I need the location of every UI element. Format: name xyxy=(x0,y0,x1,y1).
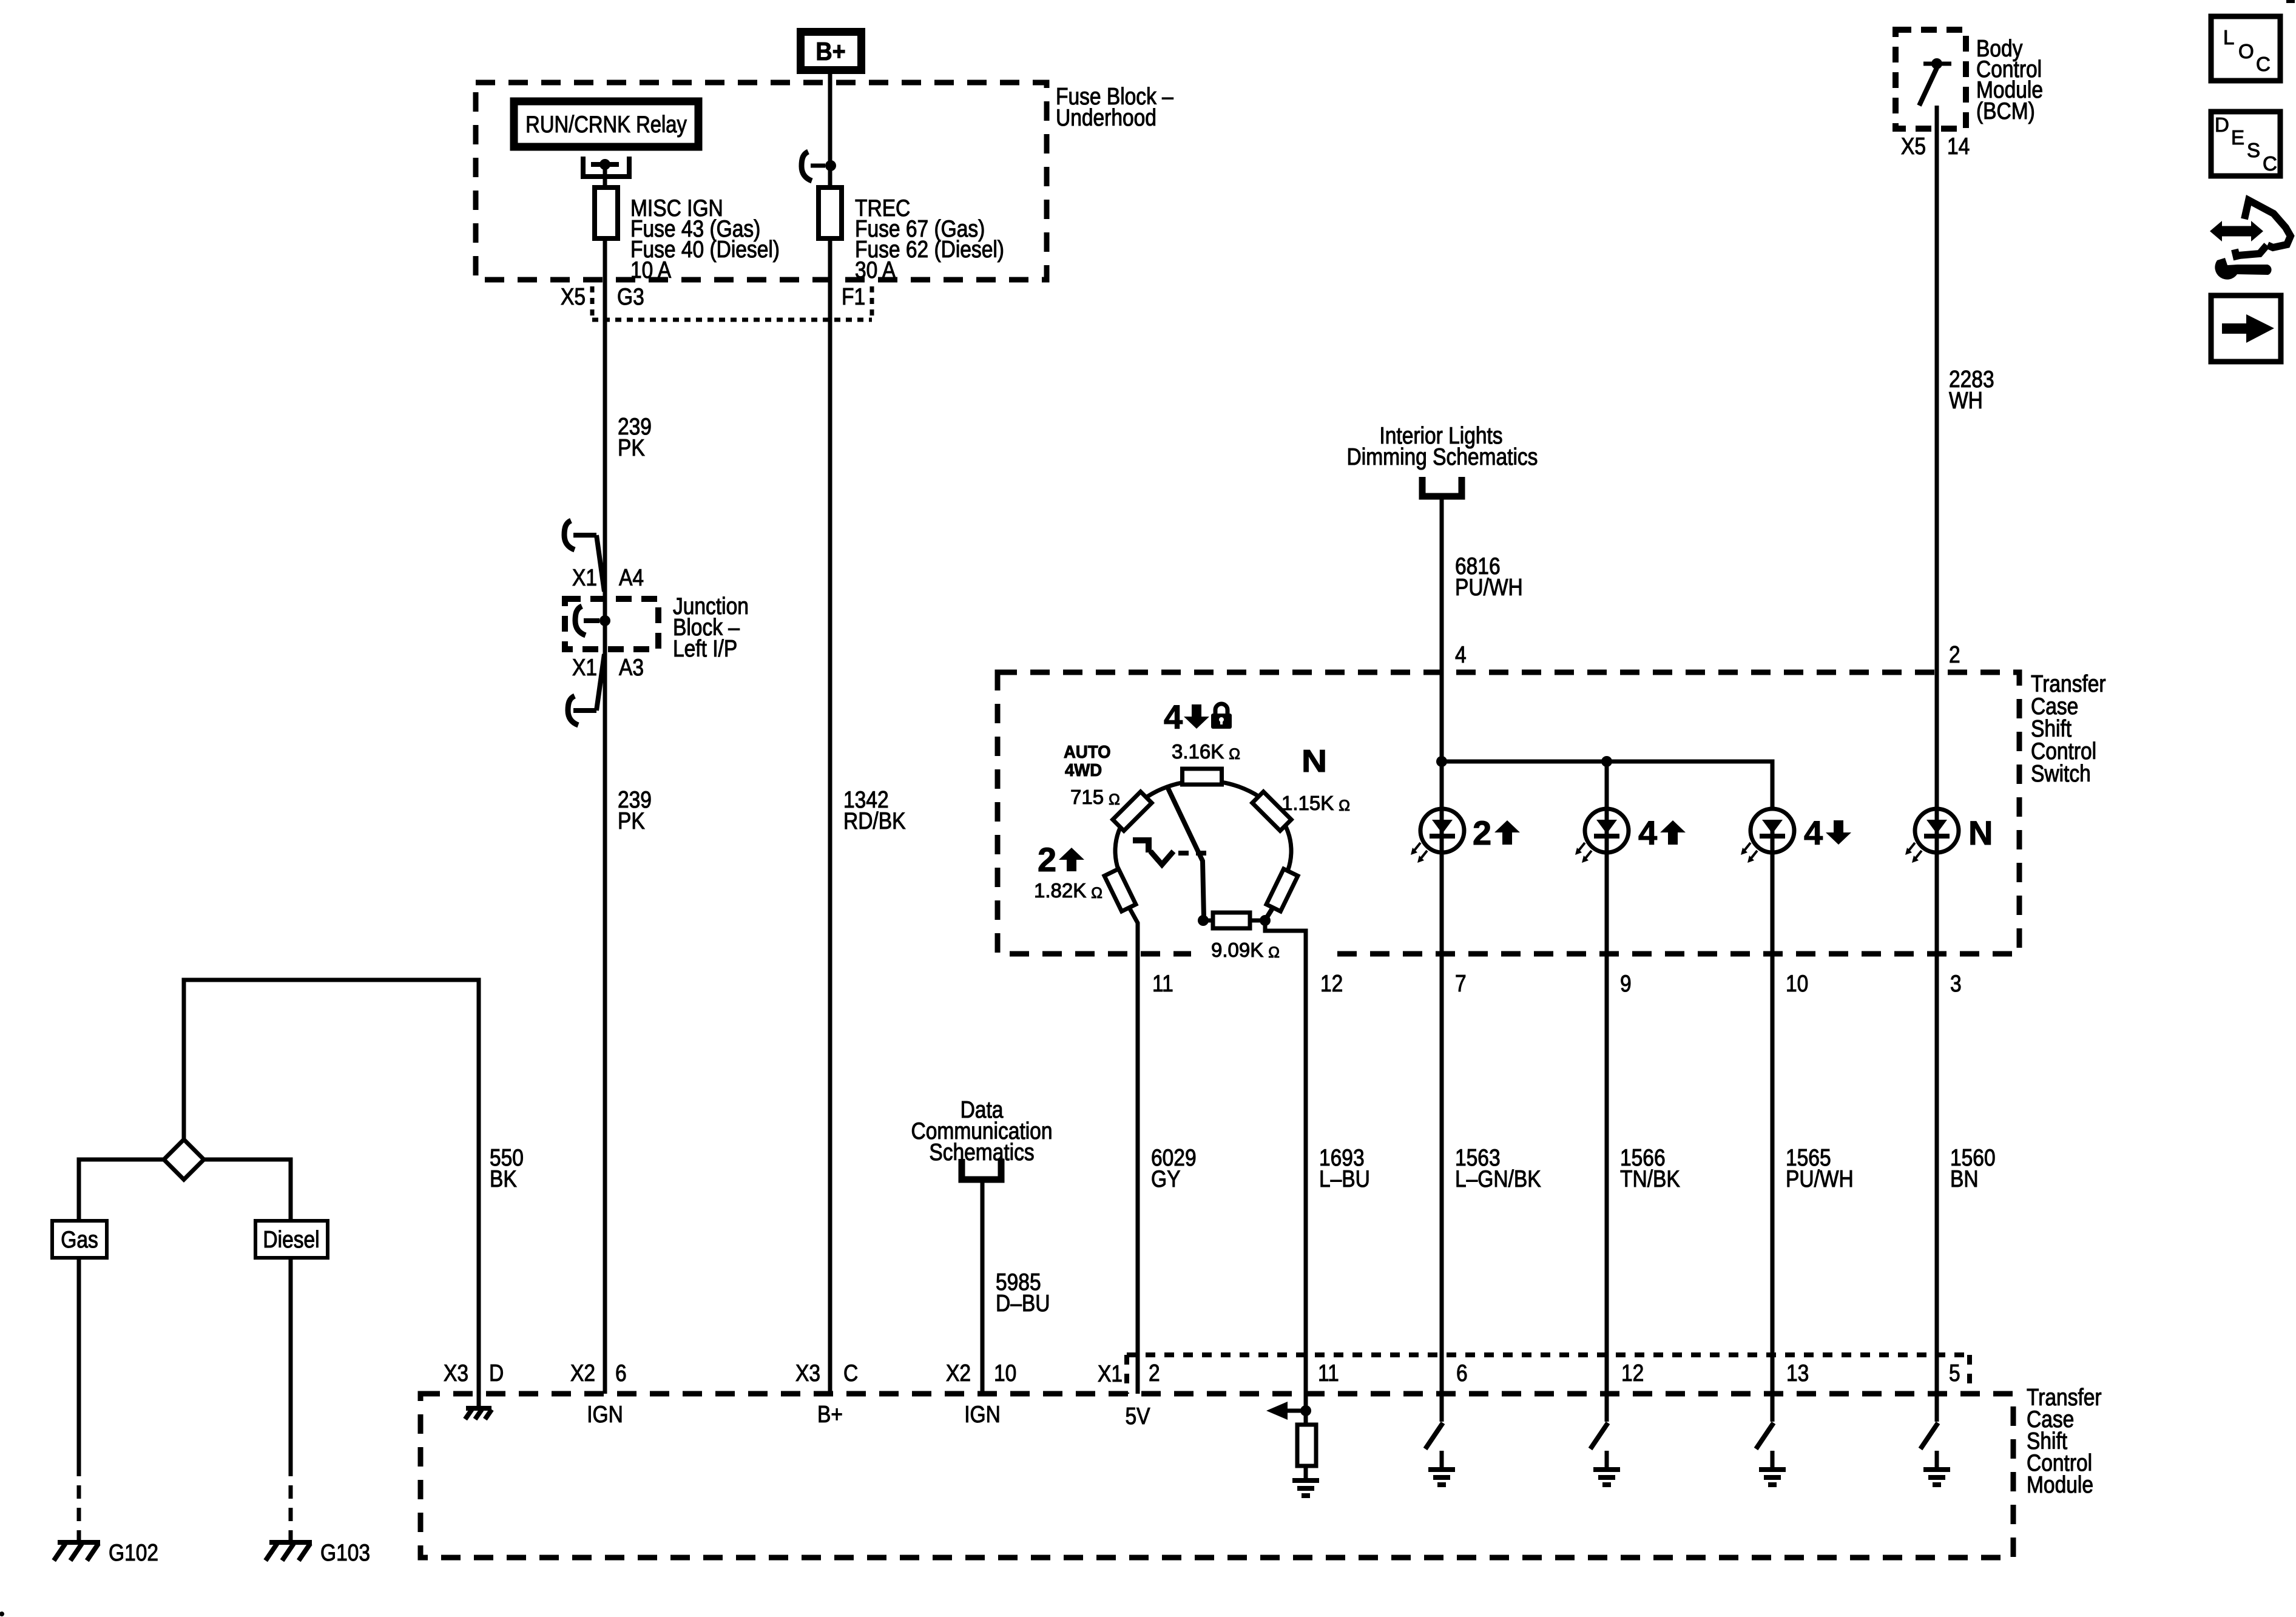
svg-text:4: 4 xyxy=(1638,814,1657,852)
svg-text:X5: X5 xyxy=(561,283,586,310)
icon LOC xyxy=(2211,16,2280,81)
svg-text:12: 12 xyxy=(1320,970,1343,997)
svg-text:4WD: 4WD xyxy=(1065,760,1102,780)
resistor 1.15K ohm (N position) xyxy=(1252,792,1291,831)
page period mark xyxy=(0,1612,4,1616)
branch box Gas xyxy=(52,1221,107,1258)
label 9.09K ohm xyxy=(1191,937,1329,962)
svg-text:Gas: Gas xyxy=(61,1226,98,1253)
svg-text:Underhood: Underhood xyxy=(1056,104,1156,131)
svg-text:TN/BK: TN/BK xyxy=(1620,1166,1680,1192)
resistor 9.09K ohm xyxy=(1203,919,1213,923)
svg-text:10: 10 xyxy=(994,1360,1016,1386)
wire module pin at x=2921 xyxy=(1771,1394,1775,1422)
svg-text:BN: BN xyxy=(1950,1166,1979,1192)
module BCM dashed box xyxy=(1896,30,1966,129)
resistor 3.16K ohm (4 DOWN LOCK position) xyxy=(1183,769,1222,785)
svg-text:X1: X1 xyxy=(572,564,597,591)
junction dot TREC feed xyxy=(825,160,836,171)
junction block - left I/P dashed box xyxy=(565,599,658,649)
junction dot 9.09K right xyxy=(1260,915,1271,926)
arrow to other circuit (module pin 11) xyxy=(1286,1409,1306,1413)
switch inside BCM xyxy=(1923,62,1951,66)
connector X1 A3 hook xyxy=(596,654,604,711)
svg-text:C: C xyxy=(843,1360,858,1386)
svg-text:N: N xyxy=(1968,814,1993,852)
svg-text:X2: X2 xyxy=(946,1360,971,1386)
connector hook at TREC feed xyxy=(802,152,812,181)
svg-text:D: D xyxy=(2215,113,2229,136)
internal resistor (module) xyxy=(1297,1425,1316,1466)
wire LED 4UP branch xyxy=(1605,761,1609,831)
junction dot bus at LED 4UP wire xyxy=(1601,756,1612,767)
wire 2283 WH from BCM to switch pin 2 xyxy=(1935,106,1939,831)
svg-text:Module: Module xyxy=(2027,1471,2093,1498)
svg-text:14: 14 xyxy=(1947,133,1970,160)
svg-text:7: 7 xyxy=(1455,970,1467,997)
svg-text:4: 4 xyxy=(1164,698,1183,736)
earth ground xyxy=(1593,1467,1620,1472)
icon DESC xyxy=(2211,112,2280,176)
junction dot module pin 11 xyxy=(1304,1394,1308,1425)
wire 5985 D-BU xyxy=(981,1180,985,1394)
power node B+ xyxy=(801,32,862,70)
svg-text:B+: B+ xyxy=(815,38,845,66)
wire 239 PK from relay terminal down (fuse block output G3) xyxy=(603,164,607,1394)
junction dot 9.09K left xyxy=(1198,915,1209,926)
svg-text:Schematics: Schematics xyxy=(929,1139,1034,1166)
svg-text:PU/WH: PU/WH xyxy=(1455,574,1523,601)
icon arrow (go to next) xyxy=(2211,295,2281,362)
svg-text:RD/BK: RD/BK xyxy=(843,808,905,834)
svg-text:PU/WH: PU/WH xyxy=(1786,1166,1854,1192)
svg-text:13: 13 xyxy=(1786,1360,1809,1386)
wire 1563 L-GN/BK (LED 2UP to module pin 6) xyxy=(1440,831,1444,1394)
svg-text:G103: G103 xyxy=(320,1539,370,1566)
svg-text:E: E xyxy=(2231,126,2244,149)
earth ground xyxy=(1759,1467,1786,1472)
wire 1566 TN/BK (LED 4UP to module pin 12) xyxy=(1605,831,1609,1394)
svg-text:30 A: 30 A xyxy=(855,257,896,283)
fuse block - underhood dashed box xyxy=(476,83,1047,280)
svg-text:2: 2 xyxy=(1149,1360,1160,1386)
svg-text:2: 2 xyxy=(1949,641,1960,668)
svg-text:X2: X2 xyxy=(570,1360,595,1386)
svg-text:2: 2 xyxy=(1038,840,1056,879)
svg-text:Dimming Schematics: Dimming Schematics xyxy=(1347,444,1538,470)
wire 1342 RD/BK from B+ down to module (X3 C) xyxy=(828,74,832,1394)
svg-text:C: C xyxy=(2263,152,2277,175)
switch blade (open, to ground) xyxy=(1756,1423,1774,1449)
ground stem xyxy=(1935,1451,1939,1470)
connector X1 dotted boundary on module xyxy=(1124,1355,1129,1394)
junction dot bus at LED 2UP wire xyxy=(1436,756,1447,767)
fuse MISC IGN (Fuse 43 Gas / Fuse 40 Diesel, 10A) xyxy=(595,187,618,238)
ground G103 xyxy=(289,1533,293,1542)
svg-text:X1: X1 xyxy=(572,654,597,681)
connector X1 A4 hook xyxy=(564,521,575,550)
dashed continuation wire to G102 xyxy=(77,1463,81,1538)
relay RUN/CRNK xyxy=(514,101,698,147)
svg-text:6: 6 xyxy=(1456,1360,1468,1386)
svg-text:5: 5 xyxy=(1949,1360,1960,1386)
svg-text:C: C xyxy=(2256,53,2271,75)
svg-text:B+: B+ xyxy=(817,1401,843,1428)
svg-text:10: 10 xyxy=(1786,970,1808,997)
wire to Gas branch xyxy=(79,1160,164,1221)
svg-text:11: 11 xyxy=(1318,1360,1339,1386)
svg-text:10 A: 10 A xyxy=(630,257,672,283)
wiper pivot contact symbol xyxy=(1133,840,1149,852)
resistor 1.82K ohm (2 UP position) xyxy=(1104,869,1136,911)
earth ground (module pin 11) xyxy=(1292,1478,1319,1483)
wire 6816 PU/WH xyxy=(1440,496,1444,831)
wiper arm xyxy=(1167,786,1204,917)
icon adjustment hand and wrench xyxy=(2221,226,2252,237)
svg-text:IGN: IGN xyxy=(964,1401,1001,1428)
indicator LED 2 UP xyxy=(1420,809,1464,852)
svg-text:X3: X3 xyxy=(795,1360,820,1386)
svg-text:O: O xyxy=(2238,40,2254,62)
svg-text:GY: GY xyxy=(1151,1166,1180,1192)
indicator LED 4 UP xyxy=(1585,809,1629,852)
rotary switch contact ring xyxy=(1115,781,1291,886)
splice diamond xyxy=(164,1139,204,1180)
svg-text:Switch: Switch xyxy=(2031,760,2091,787)
wire module pin at x=2648 xyxy=(1605,1394,1609,1422)
wire lower-right resistor to junction xyxy=(1266,906,1274,919)
svg-text:AUTO: AUTO xyxy=(1064,741,1111,761)
wire module pin at x=2376 xyxy=(1440,1394,1444,1422)
wire 1560 BN (LED N to module pin 5) xyxy=(1935,831,1939,1394)
svg-text:12: 12 xyxy=(1621,1360,1644,1386)
svg-text:11: 11 xyxy=(1152,970,1173,997)
svg-text:D–BU: D–BU xyxy=(996,1290,1050,1317)
wire rotary right leg to pin 12 xyxy=(1265,920,1306,1394)
svg-text:4: 4 xyxy=(1455,641,1467,668)
svg-text:X1: X1 xyxy=(1098,1360,1123,1387)
svg-text:IGN: IGN xyxy=(587,1401,623,1428)
ground stem xyxy=(1771,1451,1775,1470)
junction dot relay terminal xyxy=(599,159,610,170)
chassis ground inside module at pin D xyxy=(477,1394,481,1408)
svg-text:L–BU: L–BU xyxy=(1319,1166,1370,1192)
svg-text:S: S xyxy=(2247,139,2260,161)
svg-text:L: L xyxy=(2223,26,2234,49)
svg-text:PK: PK xyxy=(618,434,645,461)
ground stem xyxy=(1605,1451,1609,1470)
switch blade (open, to ground) xyxy=(1920,1423,1938,1449)
svg-text:PK: PK xyxy=(618,808,645,834)
indicator LED 4 DOWN xyxy=(1751,809,1794,852)
svg-text:X5: X5 xyxy=(1901,133,1926,160)
earth ground xyxy=(1428,1467,1455,1472)
indicator LED N xyxy=(1915,809,1959,852)
wire 1565 PU/WH (LED 4DOWN to module pin 13) xyxy=(1771,831,1775,1394)
svg-text:BK: BK xyxy=(490,1166,517,1192)
svg-text:9: 9 xyxy=(1620,970,1632,997)
svg-text:RUN/CRNK Relay: RUN/CRNK Relay xyxy=(525,110,687,137)
wire Gas to ground G102 xyxy=(77,1258,81,1463)
wire Diesel to ground G103 xyxy=(289,1258,293,1463)
svg-text:A3: A3 xyxy=(619,654,644,681)
svg-text:Diesel: Diesel xyxy=(263,1226,319,1253)
svg-text:L–GN/BK: L–GN/BK xyxy=(1455,1166,1541,1192)
ground stem xyxy=(1440,1451,1444,1470)
resistor lower-right (4 UP position) xyxy=(1266,869,1298,911)
svg-text:Left I/P: Left I/P xyxy=(673,635,737,662)
wire 550 BK from module X3 D up and over to splice xyxy=(184,980,479,1394)
resistor 715 ohm (AUTO 4WD position) xyxy=(1113,792,1152,831)
svg-text:6: 6 xyxy=(615,1360,627,1386)
dashed continuation wire to G103 xyxy=(289,1463,293,1538)
switch blade (open, to ground) xyxy=(1425,1423,1443,1449)
svg-text:3: 3 xyxy=(1950,970,1962,997)
branch box Diesel xyxy=(255,1221,328,1258)
transfer case shift control module dashed box xyxy=(420,1394,2013,1558)
wire resistor to ground xyxy=(1304,1466,1308,1480)
junction dot inside block xyxy=(599,615,610,626)
off-page reference Interior Lights Dimming Schematics xyxy=(1422,477,1462,496)
svg-text:F1: F1 xyxy=(842,283,865,310)
svg-text:G102: G102 xyxy=(109,1539,158,1566)
off-page reference Data Communication Schematics xyxy=(962,1159,1001,1180)
svg-text:A4: A4 xyxy=(619,564,644,591)
svg-text:5V: 5V xyxy=(1125,1403,1150,1430)
svg-text:2: 2 xyxy=(1473,814,1491,852)
svg-text:4: 4 xyxy=(1804,814,1823,852)
svg-text:N: N xyxy=(1302,743,1327,778)
scan artifact top-right xyxy=(2286,0,2295,3)
wire to Diesel branch xyxy=(204,1160,291,1221)
svg-text:G3: G3 xyxy=(617,283,644,310)
svg-text:(BCM): (BCM) xyxy=(1976,98,2035,124)
fuse TREC (Fuse 67 Gas / Fuse 62 Diesel, 30A) xyxy=(819,187,842,238)
wire LED supply bus xyxy=(1442,761,1772,809)
earth ground xyxy=(1923,1467,1950,1472)
relay output terminal bracket xyxy=(583,157,629,177)
switch blade (open, to ground) xyxy=(1590,1423,1608,1449)
ground G102 xyxy=(77,1533,81,1542)
connector boundary dotted line under fuse block xyxy=(592,318,872,322)
svg-text:WH: WH xyxy=(1949,387,1983,414)
wire rotary left leg to pin 11 xyxy=(1129,906,1138,1394)
junction terminal hook inside block xyxy=(575,606,586,635)
svg-text:D: D xyxy=(489,1360,504,1386)
transfer case shift control switch dashed box xyxy=(998,672,2019,954)
wire module pin at x=3192 xyxy=(1935,1394,1939,1422)
svg-text:X3: X3 xyxy=(444,1360,468,1386)
